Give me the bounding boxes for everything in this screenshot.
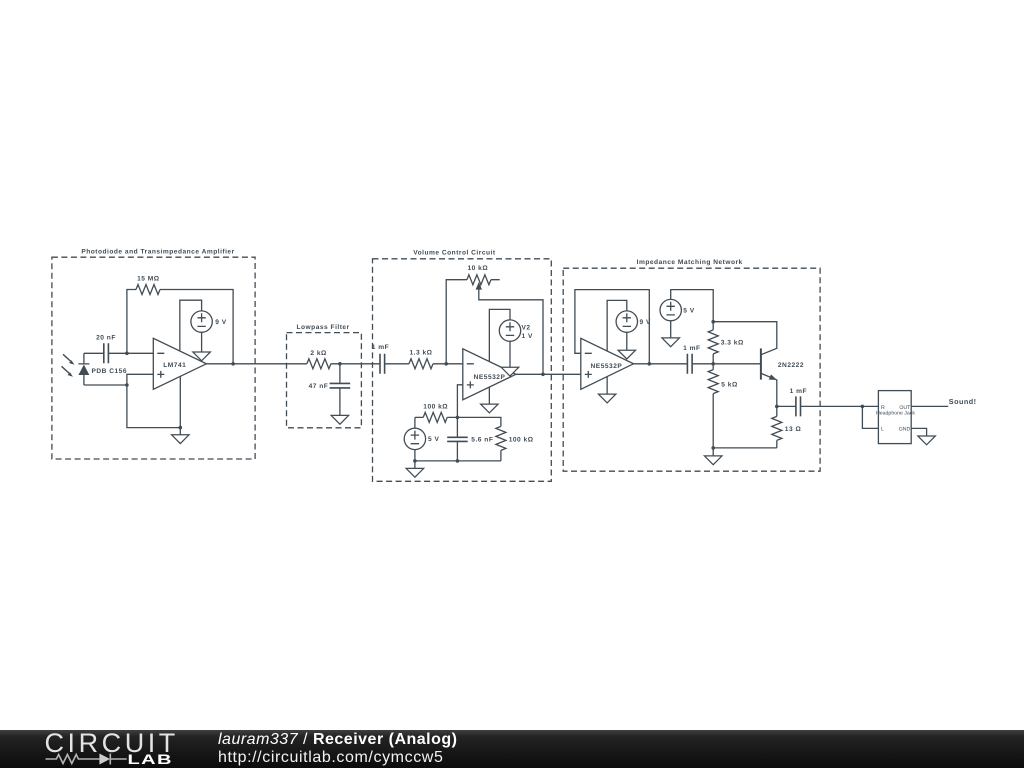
svg-text:L: L bbox=[881, 427, 884, 433]
svg-text:9 V: 9 V bbox=[640, 319, 651, 326]
svg-text:V2: V2 bbox=[522, 324, 531, 331]
svg-text:9 V: 9 V bbox=[215, 319, 226, 326]
svg-text:100 kΩ: 100 kΩ bbox=[423, 403, 448, 410]
svg-text:3.3 kΩ: 3.3 kΩ bbox=[721, 340, 744, 347]
svg-text:5 kΩ: 5 kΩ bbox=[721, 382, 738, 389]
svg-text:LAB: LAB bbox=[128, 751, 173, 767]
svg-text:Photodiode and Transimpedance: Photodiode and Transimpedance Amplifier bbox=[81, 248, 234, 255]
svg-text:1 mF: 1 mF bbox=[790, 388, 807, 395]
svg-text:100 kΩ: 100 kΩ bbox=[509, 437, 534, 444]
svg-text:Lowpass Filter: Lowpass Filter bbox=[297, 324, 350, 331]
svg-text:Impedance Matching Network: Impedance Matching Network bbox=[637, 259, 743, 266]
svg-text:1 mF: 1 mF bbox=[372, 344, 389, 351]
svg-text:LM741: LM741 bbox=[163, 362, 186, 369]
svg-text:1.3 kΩ: 1.3 kΩ bbox=[410, 350, 433, 357]
svg-text:5 V: 5 V bbox=[428, 436, 439, 443]
svg-text:NE5532P: NE5532P bbox=[591, 363, 623, 370]
svg-text:1 V: 1 V bbox=[522, 333, 533, 340]
svg-text:Headphone Jack: Headphone Jack bbox=[876, 410, 915, 416]
svg-text:47 nF: 47 nF bbox=[309, 383, 329, 390]
svg-text:5 V: 5 V bbox=[683, 307, 694, 314]
svg-text:5.6 nF: 5.6 nF bbox=[471, 437, 493, 444]
svg-text:20 nF: 20 nF bbox=[96, 335, 116, 342]
svg-text:Volume Control Circuit: Volume Control Circuit bbox=[413, 250, 496, 257]
svg-text:13 Ω: 13 Ω bbox=[785, 426, 802, 433]
svg-text:2 kΩ: 2 kΩ bbox=[310, 350, 327, 357]
svg-text:PDB C156: PDB C156 bbox=[92, 368, 128, 375]
svg-text:Sound!: Sound! bbox=[949, 397, 977, 406]
svg-text:2N2222: 2N2222 bbox=[778, 362, 804, 369]
svg-text:15 MΩ: 15 MΩ bbox=[137, 276, 160, 283]
svg-text:GND: GND bbox=[899, 427, 911, 433]
svg-text:10 kΩ: 10 kΩ bbox=[467, 265, 488, 272]
svg-text:1 mF: 1 mF bbox=[683, 345, 700, 352]
svg-text:NE5532P: NE5532P bbox=[474, 374, 506, 381]
